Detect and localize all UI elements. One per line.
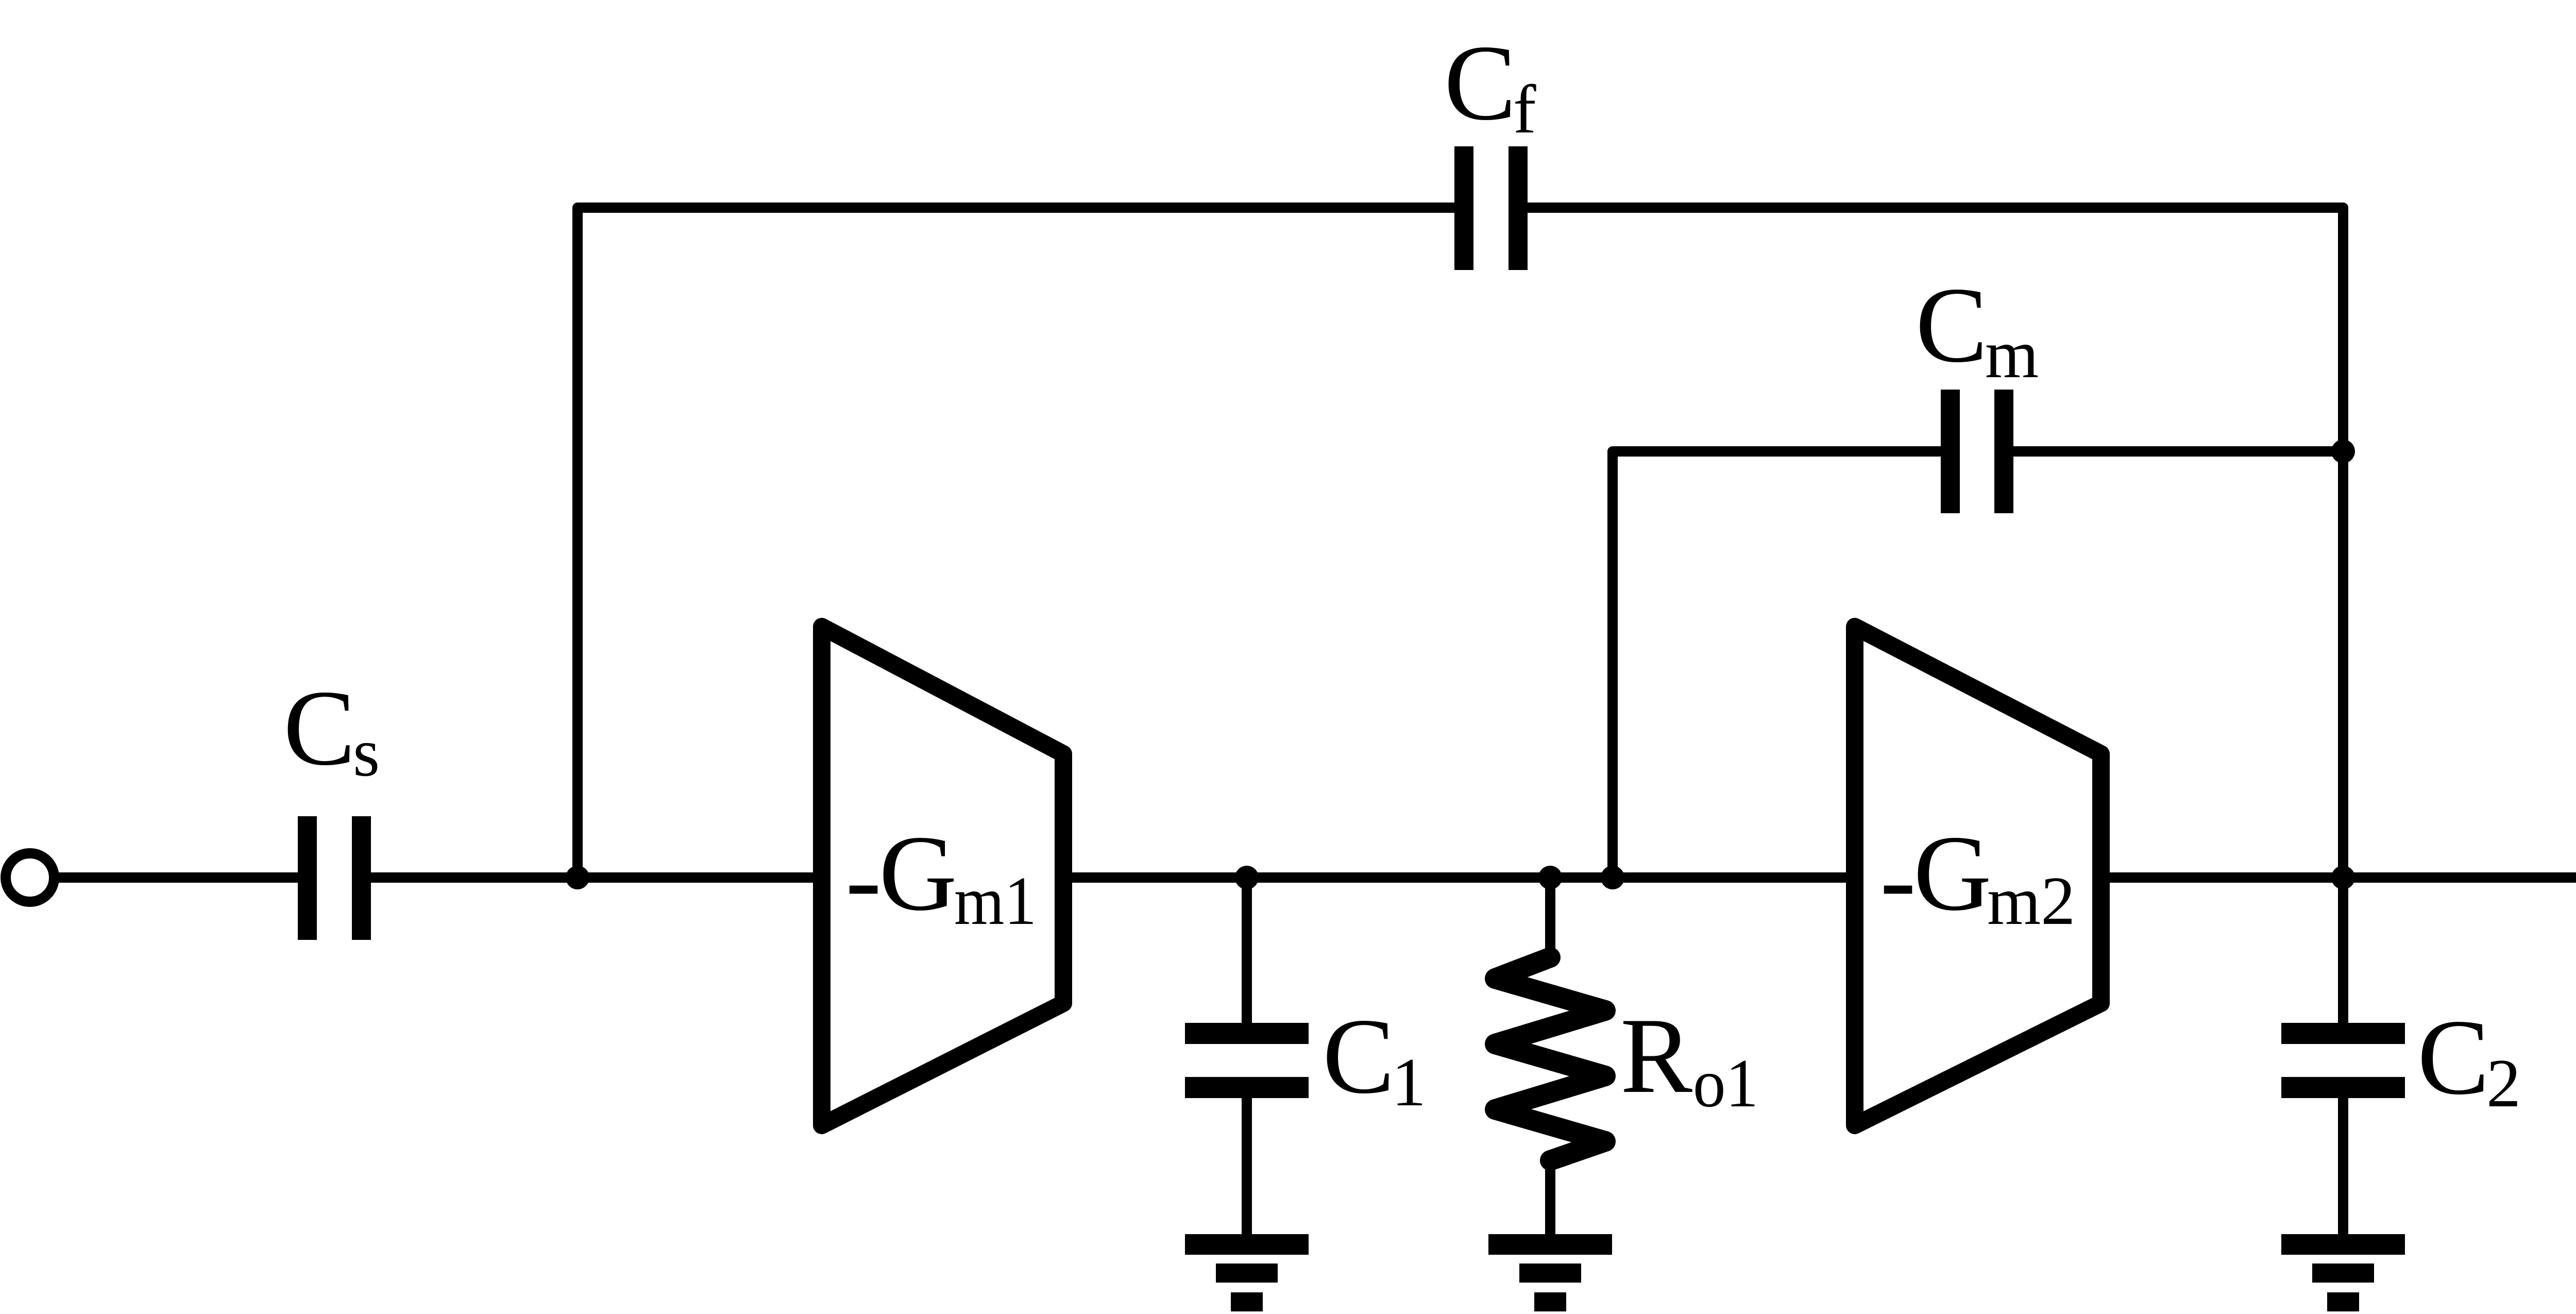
node Ro1 tap [1538, 866, 1562, 889]
svg-text:G: G [879, 814, 957, 933]
svg-text:f: f [1513, 71, 1536, 147]
svg-text:o1: o1 [1693, 1045, 1758, 1121]
label Cs [283, 668, 380, 790]
resistor Ro1 [1495, 957, 1605, 1160]
svg-text:C: C [1323, 997, 1395, 1116]
label Ro1 [1620, 996, 1758, 1121]
op-amp U2 -Gm2 [1855, 627, 2101, 1125]
capacitor Cm [1941, 390, 2013, 513]
wire Cs to Gm1 input [371, 872, 822, 883]
node C1 tap [1235, 866, 1259, 889]
svg-text:C: C [1444, 23, 1516, 143]
wire Ro1 stub [1545, 878, 1555, 1237]
capacitor Cf [1454, 146, 1528, 270]
capacitor C2 [2281, 1023, 2405, 1098]
capacitor Cs [298, 816, 371, 940]
wire Gm1 output to Gm2 input [1063, 872, 1855, 883]
wire Cm right segment [2013, 446, 2343, 457]
svg-text:C: C [2417, 998, 2489, 1117]
svg-text:m1: m1 [954, 863, 1037, 939]
svg-text:C: C [1916, 265, 1988, 385]
label C1 [1323, 997, 1426, 1120]
node output junction [2331, 866, 2355, 889]
label -Gm2 [1880, 814, 2075, 939]
svg-text:-: - [1880, 819, 1916, 939]
svg-text:R: R [1620, 996, 1692, 1116]
wire Gm2 output to output terminal [2101, 872, 2576, 883]
ground under Ro1 [1488, 1234, 1612, 1311]
ground under C2 [2281, 1234, 2405, 1311]
svg-text:C: C [283, 668, 355, 788]
wire input to Cs [54, 872, 298, 883]
svg-text:-: - [845, 819, 882, 939]
svg-text:m: m [1985, 316, 2039, 392]
svg-text:m2: m2 [1987, 863, 2075, 939]
svg-text:2: 2 [2486, 1045, 2521, 1121]
node A (Cf tap on input) [566, 866, 589, 889]
label -Gm1 [845, 814, 1037, 939]
svg-text:1: 1 [1392, 1044, 1426, 1120]
wire Cf top right segment and right riser [1528, 208, 2343, 878]
node Cm tap on Gm2 input [1601, 866, 1624, 889]
wire C1 stub [1242, 878, 1252, 1237]
wire C2 stub [2338, 878, 2348, 1237]
ground under C1 [1185, 1234, 1309, 1311]
label Cf [1444, 23, 1536, 147]
capacitor C1 [1185, 1023, 1309, 1098]
label Cm [1916, 265, 2039, 392]
node Cm junction on right riser [2331, 440, 2355, 463]
label C2 [2417, 998, 2521, 1121]
wire Cf left riser and top left segment [578, 208, 1454, 878]
svg-text:s: s [353, 714, 380, 790]
svg-text:G: G [1913, 814, 1992, 933]
wire Cm left riser and left segment [1613, 451, 1941, 878]
input terminal [6, 853, 54, 902]
op-amp U1 -Gm1 [822, 627, 1063, 1125]
